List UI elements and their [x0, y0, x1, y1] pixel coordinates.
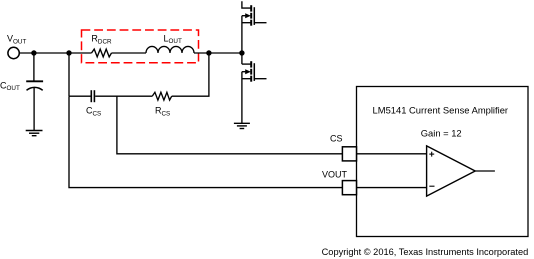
junction: COUT tap — [31, 50, 36, 55]
resistor RCS — [152, 92, 172, 100]
resistor RDCR — [92, 49, 112, 57]
wire: LOUT to switch node — [194, 52, 242, 54]
transistor Q1 (high-side NMOS) — [242, 1, 267, 26]
label RCS — [155, 106, 170, 118]
copyright note — [322, 247, 529, 257]
inductor LOUT — [146, 46, 194, 53]
wire: RCS to inductor output — [172, 53, 209, 96]
ground (below COUT) — [26, 131, 43, 136]
wire: RDCR to LOUT — [112, 52, 147, 54]
label CCS — [86, 106, 101, 118]
label RDCR — [91, 34, 112, 46]
pin VOUT — [342, 181, 356, 195]
svg-text:Copyright © 2016, Texas Instru: Copyright © 2016, Texas Instruments Inco… — [322, 247, 529, 257]
ground (below Q2) — [234, 123, 250, 128]
junction: sense tap — [66, 50, 71, 55]
wire: CCS to RCS — [95, 95, 152, 97]
label pin CS — [330, 133, 343, 143]
label COUT — [0, 80, 20, 92]
junction: switch node — [239, 50, 244, 55]
wire: Q1 source to Q2 drain — [241, 16, 243, 64]
label LOUT — [164, 33, 182, 45]
svg-text:VOUT: VOUT — [322, 169, 348, 179]
svg-text:LM5141 Current Sense Amplifier: LM5141 Current Sense Amplifier — [373, 104, 508, 115]
IC box U1 LM5141 current sense amplifier — [357, 87, 529, 237]
wire: CS sense line — [117, 96, 343, 154]
wire: VOUT terminal to RDCR — [19, 52, 91, 54]
capacitor COUT — [26, 53, 43, 131]
wire: op-amp output — [475, 170, 495, 172]
junction: RCS tap — [206, 50, 211, 55]
svg-text:Gain = 12: Gain = 12 — [421, 127, 462, 138]
op-amp A1 — [427, 146, 476, 196]
wire: VOUT pin to op-amp - input — [357, 187, 427, 189]
wire: sense tap down to CCS — [68, 53, 70, 96]
wire: VOUT sense line — [69, 96, 342, 187]
transistor Q2 (low-side NMOS) — [242, 61, 267, 81]
pin CS — [342, 147, 356, 161]
capacitor CCS — [91, 90, 94, 102]
terminal VOUT — [8, 47, 19, 58]
highlight box (inductor DCR model) — [82, 30, 199, 63]
svg-text:CS: CS — [330, 133, 343, 143]
wire: CS pin to op-amp + input — [357, 153, 427, 155]
label VOUT — [7, 34, 26, 46]
wire: to CCS left plate — [69, 95, 91, 97]
label pin VOUT — [322, 169, 348, 179]
wire: Q2 source to ground — [241, 72, 243, 124]
